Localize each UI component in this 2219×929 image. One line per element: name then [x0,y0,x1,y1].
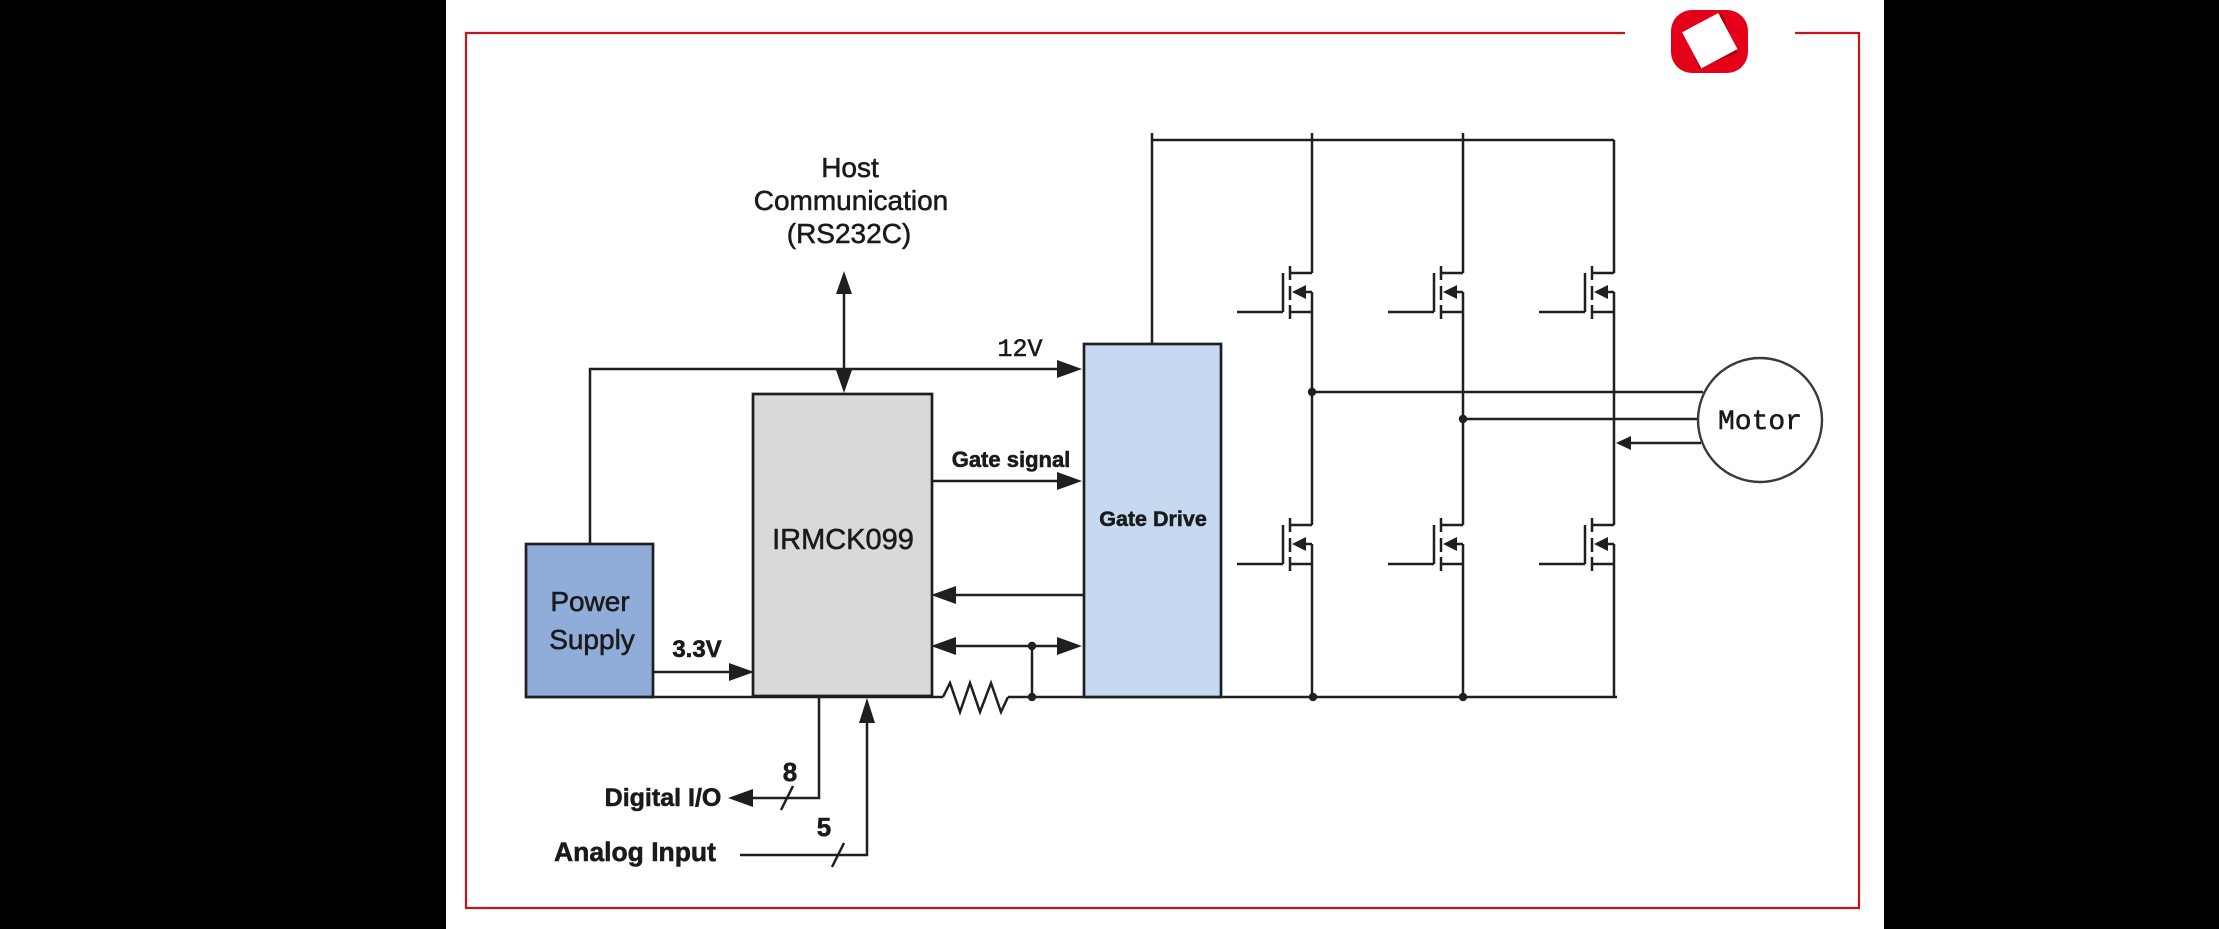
svg-text:5: 5 [817,812,831,842]
svg-text:3.3V: 3.3V [672,636,721,663]
svg-text:(RS232C): (RS232C) [787,218,911,249]
svg-text:Communication: Communication [754,185,949,216]
svg-text:Supply: Supply [549,624,635,655]
svg-text:Digital I/O: Digital I/O [605,784,722,812]
svg-text:Gate signal: Gate signal [952,447,1071,472]
svg-text:Motor: Motor [1718,407,1802,438]
svg-text:Power: Power [550,586,629,617]
svg-text:12V: 12V [997,335,1042,364]
svg-text:IRMCK099: IRMCK099 [772,524,914,556]
svg-text:8: 8 [783,757,797,787]
svg-text:Host: Host [821,152,879,183]
svg-text:Gate Drive: Gate Drive [1099,507,1207,531]
svg-text:Analog Input: Analog Input [554,837,716,867]
